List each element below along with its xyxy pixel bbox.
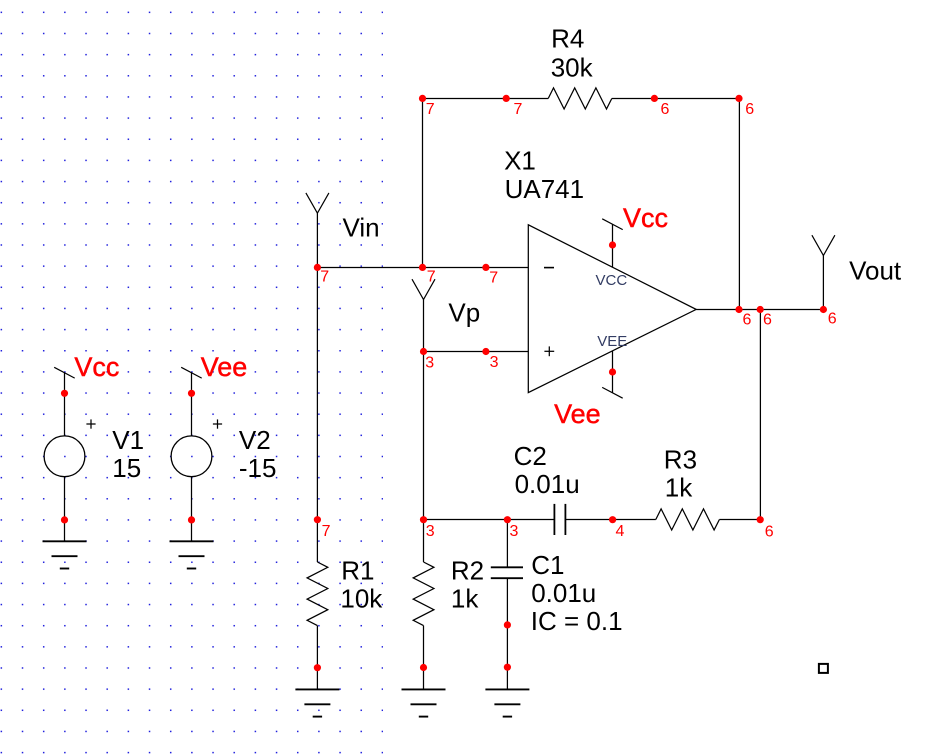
node Vp terminal antenna <box>412 279 435 299</box>
svg-text:30k: 30k <box>551 52 594 82</box>
node dot Vp <box>420 348 427 355</box>
svg-text:V2: V2 <box>239 425 271 455</box>
svg-text:R4: R4 <box>551 24 584 54</box>
node dot plus row right <box>482 348 489 355</box>
svg-text:-15: -15 <box>239 453 277 483</box>
wire V1 bottom <box>64 477 66 542</box>
resistor R4 <box>548 88 612 109</box>
svg-text:7: 7 <box>426 101 435 118</box>
svg-text:R1: R1 <box>341 555 374 585</box>
wire left branch vertical (Vin to R1) <box>316 268 318 563</box>
capacitor C1 <box>491 567 523 578</box>
svg-text:R2: R2 <box>451 555 484 585</box>
node dot row R2 <box>420 516 427 523</box>
node dot VCC stub <box>609 241 616 248</box>
wire VEE power stub <box>612 351 614 393</box>
svg-text:Vout: Vout <box>849 256 902 286</box>
wire op-amp output <box>696 309 823 311</box>
svg-text:VEE: VEE <box>597 333 627 350</box>
plus sign V2 <box>213 419 222 428</box>
node dot V1 top <box>61 390 68 397</box>
dotted grid background <box>0 0 383 754</box>
svg-text:IC = 0.1: IC = 0.1 <box>531 606 623 636</box>
wire C1 branch top <box>506 520 508 568</box>
ground below V1 <box>43 541 87 568</box>
svg-text:7: 7 <box>427 269 436 286</box>
source V2 circle <box>171 436 212 477</box>
wire R1 to ground <box>316 626 318 690</box>
node dot row R1 <box>314 516 321 523</box>
plus sign V1 <box>86 419 95 428</box>
wire node row left segment <box>424 519 555 521</box>
wire top feedback right segment <box>654 98 739 100</box>
node dot row C1 <box>504 516 511 523</box>
svg-text:1k: 1k <box>451 584 479 614</box>
wire Vp node to op-amp plus input <box>424 351 529 353</box>
node dot gnd R1 <box>314 664 321 671</box>
svg-text:VCC: VCC <box>596 272 628 289</box>
node dot VEE stub <box>609 368 616 375</box>
resistor R1 <box>307 562 328 626</box>
node dot minus row right <box>482 264 489 271</box>
svg-text:3: 3 <box>425 355 434 372</box>
node dot output feedback <box>735 306 742 313</box>
op-amp plus sign <box>544 346 554 356</box>
svg-text:UA741: UA741 <box>505 174 584 204</box>
svg-text:7: 7 <box>322 523 331 540</box>
node dot Vin <box>314 264 321 271</box>
node dot V2 top <box>188 390 195 397</box>
pin numbers red <box>320 101 837 541</box>
wire feedback right vertical <box>738 99 740 310</box>
wire feedback left vertical <box>422 99 424 268</box>
node dot gnd R2 <box>420 664 427 671</box>
svg-text:6: 6 <box>745 101 754 118</box>
wire R4 to node 6 <box>612 98 655 100</box>
wire Vin antenna stem <box>316 213 318 267</box>
svg-text:6: 6 <box>763 312 772 329</box>
node dot minus row mid <box>419 264 426 271</box>
svg-text:7: 7 <box>320 269 329 286</box>
source V2 tag Vee <box>181 367 202 378</box>
svg-text:3: 3 <box>426 523 435 540</box>
wire top feedback left segment <box>423 98 507 100</box>
node dot Vout <box>820 306 827 313</box>
node dot below C1 <box>504 621 511 628</box>
node dot V2 bottom <box>188 516 195 523</box>
node dot output R3 <box>757 306 764 313</box>
node dot V1 bottom <box>61 516 68 523</box>
svg-text:Vp: Vp <box>448 297 480 327</box>
svg-text:3: 3 <box>490 354 499 371</box>
node dot row 6 <box>757 516 764 523</box>
ground below R2 <box>402 689 446 716</box>
node Vout terminal antenna <box>812 235 835 255</box>
marker square bottom right <box>819 664 828 673</box>
svg-text:4: 4 <box>616 523 625 540</box>
svg-text:Vee: Vee <box>554 399 601 429</box>
wire V1 top <box>64 373 66 436</box>
svg-text:7: 7 <box>489 270 498 287</box>
svg-text:Vcc: Vcc <box>74 352 119 382</box>
svg-text:3: 3 <box>510 523 519 540</box>
svg-text:1k: 1k <box>665 473 693 503</box>
power tag Vee <box>602 387 623 398</box>
wire R2 to ground <box>423 626 425 690</box>
wire Vin node to op-amp minus input <box>317 267 528 269</box>
svg-text:R3: R3 <box>664 444 697 474</box>
capacitor C2 <box>554 504 565 535</box>
wire C1 to ground <box>506 578 508 689</box>
wire C2 to node 4 <box>565 519 655 521</box>
wire Vp antenna stem <box>423 300 425 352</box>
svg-text:0.01u: 0.01u <box>531 578 596 608</box>
resistor R2 <box>413 562 434 626</box>
svg-text:6: 6 <box>743 312 752 329</box>
svg-text:10k: 10k <box>340 584 383 614</box>
power tag Vcc <box>602 219 623 230</box>
ground below R1 <box>295 689 339 716</box>
node dot row 4 <box>609 516 616 523</box>
svg-text:C2: C2 <box>514 441 547 471</box>
node dot top right <box>735 95 742 102</box>
svg-text:V1: V1 <box>112 425 144 455</box>
svg-text:Vcc: Vcc <box>623 203 668 233</box>
wire VCC power stub <box>612 224 614 267</box>
svg-text:6: 6 <box>661 101 670 118</box>
svg-text:6: 6 <box>828 311 837 328</box>
node dot top left <box>419 95 426 102</box>
svg-text:Vin: Vin <box>343 212 380 242</box>
ground below C1 <box>485 689 529 716</box>
svg-text:C1: C1 <box>531 550 564 580</box>
svg-text:X1: X1 <box>504 146 536 176</box>
svg-text:7: 7 <box>514 101 523 118</box>
node dot top 7 <box>503 95 510 102</box>
source V1 circle <box>44 436 85 477</box>
op-amp minus sign <box>544 267 554 269</box>
svg-text:6: 6 <box>765 524 774 541</box>
svg-text:Vee: Vee <box>201 352 248 382</box>
resistor R3 <box>656 509 720 530</box>
source V1 tag Vcc <box>54 367 74 378</box>
svg-text:15: 15 <box>112 453 141 483</box>
wire R3 to corner <box>719 519 760 521</box>
wire Vout antenna stem <box>822 256 824 310</box>
wire V2 bottom <box>191 477 193 542</box>
op-amp X1 triangle <box>528 225 696 393</box>
node dot gnd C1 <box>504 664 511 671</box>
wire middle branch vertical (Vp to R2) <box>423 352 425 563</box>
svg-text:0.01u: 0.01u <box>515 469 580 499</box>
node dot top 6 <box>651 95 658 102</box>
ground below V2 <box>170 541 214 568</box>
wire top feedback to R4 <box>506 98 548 100</box>
wire R3 right vertical <box>759 310 761 520</box>
wire V2 top <box>191 373 193 436</box>
node Vin terminal antenna <box>306 193 329 213</box>
